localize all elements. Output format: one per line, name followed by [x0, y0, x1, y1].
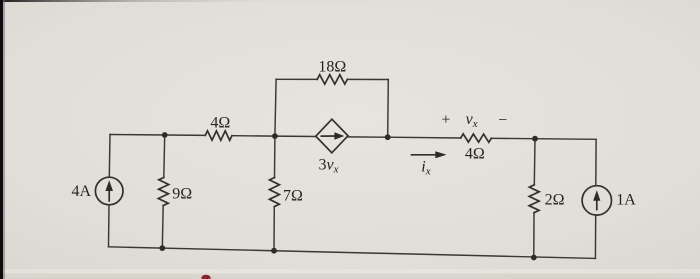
- svg-text:+: +: [441, 111, 450, 128]
- wire 2ohm bottom lead: [533, 213, 535, 258]
- wire 9ohm bottom lead: [161, 206, 164, 249]
- resistor R 9ohm (vertical): [158, 178, 168, 206]
- svg-text:18Ω: 18Ω: [318, 59, 346, 76]
- wire middle: left corner to 4ohm: [110, 134, 205, 137]
- dependent source 3vx diamond: [316, 119, 348, 153]
- resistor R 2ohm (vertical): [529, 185, 539, 213]
- current arrow ix: [411, 151, 447, 158]
- dependent source 3vx arrow: [321, 132, 345, 139]
- node mid 9ohm: [162, 132, 168, 138]
- wire 9ohm top lead: [163, 135, 166, 178]
- wire 18ohm right vertical: [387, 80, 390, 138]
- node bottom 7ohm: [271, 248, 277, 254]
- wire right branch lower: [594, 215, 596, 258]
- svg-text:4A: 4A: [71, 183, 91, 200]
- svg-text:7Ω: 7Ω: [283, 187, 303, 204]
- wire left branch upper: [108, 135, 111, 178]
- wire bottom: [109, 247, 596, 259]
- svg-text:1A: 1A: [616, 191, 636, 208]
- current source 1A arrow: [593, 190, 600, 210]
- node mid 18ohm right: [385, 134, 391, 140]
- wire right branch upper: [595, 139, 597, 186]
- node bottom 9ohm: [159, 245, 165, 251]
- current source 1A circle: [582, 186, 611, 215]
- node bottom 2ohm: [531, 255, 537, 261]
- resistor R 7ohm (vertical): [269, 178, 279, 207]
- red mark bottom: [201, 275, 210, 279]
- wire 7ohm top lead: [274, 136, 276, 177]
- current source 4A circle: [95, 177, 123, 205]
- resistor R 4ohm (left, horizontal): [205, 131, 232, 141]
- svg-text:4Ω: 4Ω: [465, 145, 485, 162]
- wire left branch lower: [108, 205, 111, 247]
- current source 4A arrow: [105, 180, 113, 202]
- wire middle: junction to diamond: [275, 135, 316, 137]
- wire 18ohm left vertical: [275, 79, 276, 136]
- node mid 7ohm junction: [272, 133, 278, 139]
- wire middle: 4ohm to junction: [232, 135, 275, 137]
- svg-text:4Ω: 4Ω: [210, 115, 230, 132]
- wire 2ohm top lead: [533, 139, 536, 185]
- wire middle: 4ohm-x to right corner: [491, 138, 596, 139]
- node mid 2ohm: [532, 136, 538, 142]
- resistor R 18ohm (top, horizontal): [317, 75, 347, 84]
- wire 18ohm top left: [276, 78, 317, 80]
- svg-text:9Ω: 9Ω: [172, 185, 192, 202]
- wire 7ohm bottom lead: [273, 207, 275, 251]
- wire 18ohm top right: [347, 78, 388, 80]
- wire middle: node to 4ohm-x: [388, 136, 461, 139]
- svg-text:2Ω: 2Ω: [545, 191, 565, 208]
- svg-text:−: −: [498, 112, 507, 129]
- resistor R 4ohm-x (right, horizontal): [461, 134, 492, 142]
- wire middle: diamond to node: [348, 136, 388, 138]
